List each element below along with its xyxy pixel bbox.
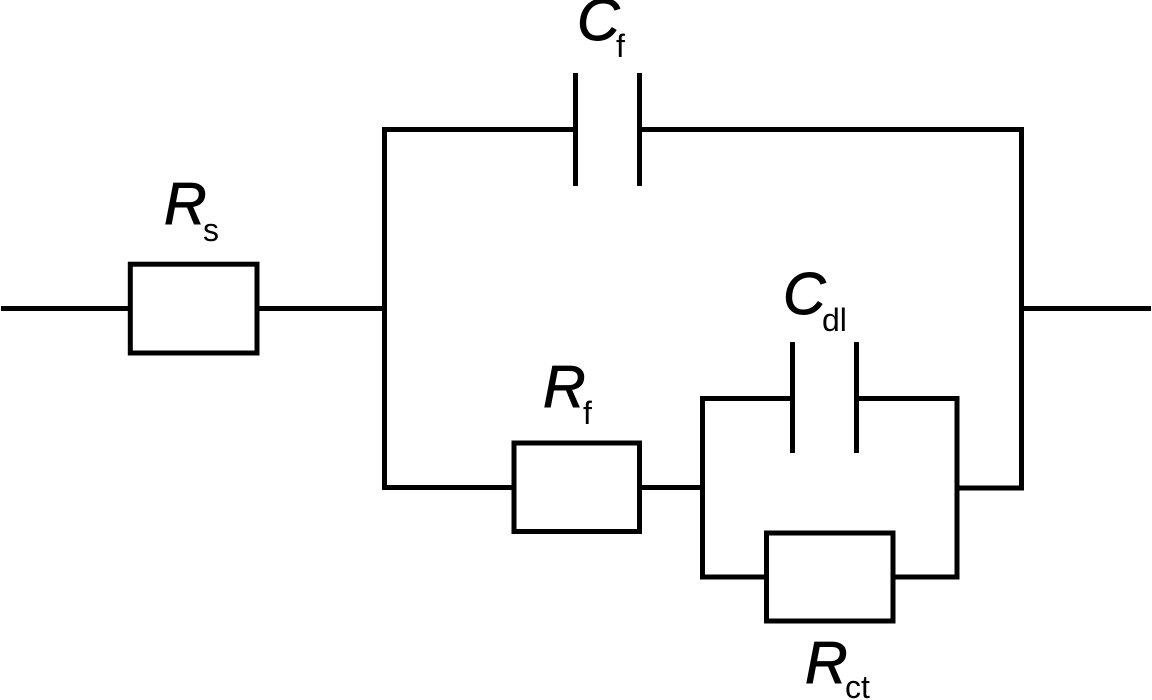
- capacitor Cf right plate: [637, 73, 642, 186]
- svg-text:R: R: [164, 171, 207, 237]
- wire right lead: [1022, 306, 1152, 311]
- wire Rs to left junction: [257, 306, 387, 311]
- label Cdl: [783, 261, 847, 338]
- wire inner loop right vertical: [955, 396, 960, 580]
- resistor Rs: [130, 264, 257, 353]
- wire inner loop to right junction: [955, 486, 1025, 491]
- wire Rf to inner loop: [640, 485, 706, 490]
- capacitor Cdl left plate: [790, 342, 795, 453]
- wire inner loop bottom right: [893, 575, 957, 580]
- label Rf: [543, 354, 592, 431]
- wire inner loop bottom left: [703, 575, 767, 580]
- label Rct: [805, 630, 870, 700]
- wire inner loop left vertical: [700, 396, 705, 580]
- wire top branch left: [385, 127, 576, 132]
- resistor Rf: [514, 443, 640, 532]
- wire right outer vertical: [1019, 127, 1024, 491]
- svg-text:R: R: [543, 354, 586, 420]
- svg-text:dl: dl: [822, 302, 847, 338]
- svg-text:ct: ct: [845, 669, 870, 700]
- wire top branch right: [640, 127, 1022, 132]
- wire left lead: [1, 306, 130, 311]
- svg-text:C: C: [577, 0, 620, 53]
- capacitor Cdl right plate: [854, 342, 859, 453]
- wire inner loop top left: [703, 396, 793, 401]
- svg-text:R: R: [805, 630, 848, 696]
- wire left branch vertical: [382, 127, 387, 490]
- svg-text:s: s: [203, 212, 219, 248]
- svg-text:f: f: [616, 28, 625, 64]
- capacitor Cf left plate: [573, 73, 578, 186]
- label Rs: [164, 171, 219, 248]
- resistor Rct: [767, 533, 894, 621]
- label Cf: [577, 0, 625, 64]
- svg-text:f: f: [583, 395, 592, 431]
- wire inner loop top right: [857, 396, 958, 401]
- wire bottom branch left: [385, 485, 515, 490]
- svg-text:C: C: [783, 261, 826, 327]
